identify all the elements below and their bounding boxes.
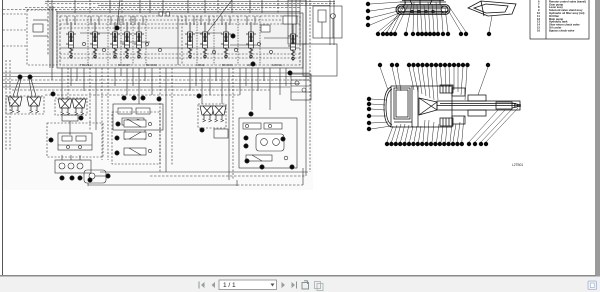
upper frame body xyxy=(391,86,452,127)
callout dot 10 xyxy=(281,137,285,141)
valve spool V3 xyxy=(110,22,120,59)
callout dot column (side view) xyxy=(366,2,370,6)
svg-text:ARM1: ARM1 xyxy=(196,63,205,67)
valve spool V9 xyxy=(246,22,256,59)
valve bank mid rails xyxy=(60,16,300,65)
last page button xyxy=(292,282,297,289)
inlet feed lines xyxy=(3,6,53,68)
callout dot 18 xyxy=(157,97,161,101)
leader diagonal into bank 2 xyxy=(117,0,120,26)
boom foot part drawing xyxy=(468,1,516,16)
wire bundle: top horizontal lines xyxy=(3,2,335,12)
inlet dashed box left of bank xyxy=(27,10,57,65)
valve spool V5 xyxy=(134,22,144,59)
excavator side view: track undercarriage xyxy=(396,0,450,15)
valve spool V7 xyxy=(200,22,210,59)
callout dot 9 xyxy=(245,159,249,163)
callout dot 20 xyxy=(132,96,136,100)
svg-text:SWING: SWING xyxy=(272,63,283,67)
pilot filter box top right xyxy=(313,6,342,38)
svg-text:Bypass check valve: Bypass check valve xyxy=(549,28,575,32)
side boxes xyxy=(452,88,465,96)
facing pages icon (disabled) xyxy=(315,282,324,291)
solenoid block under bank right xyxy=(288,0,306,44)
valve bank section separators xyxy=(88,16,260,65)
callout dot 30 xyxy=(70,176,74,180)
schematic tone wash xyxy=(3,0,313,190)
page bottom shadow line xyxy=(0,275,596,277)
next page button xyxy=(282,282,286,288)
callout dot 37 xyxy=(288,71,292,75)
callout dot 33 xyxy=(106,174,110,178)
shuttle valve block xyxy=(113,104,163,140)
svg-text:BUCKET: BUCKET xyxy=(118,63,130,67)
callout dot 23 xyxy=(49,138,53,142)
page number combo box xyxy=(219,280,277,290)
remote control valve (travel) xyxy=(198,104,228,138)
status icon bottom right xyxy=(588,281,597,290)
wire bundle: mid verticals xyxy=(62,0,310,180)
leader lines for side view callouts xyxy=(370,2,492,32)
remote control valve (left pair) xyxy=(6,79,44,114)
valve spool V10 xyxy=(288,24,298,61)
callout dot row (side view) xyxy=(376,32,491,36)
section labels along bank bottom xyxy=(80,63,283,67)
callout dot 26 xyxy=(18,75,22,79)
top view: left callout column xyxy=(371,99,391,129)
callout dot 11 xyxy=(244,144,248,148)
engine deck lines xyxy=(411,86,413,127)
boom assembly xyxy=(437,101,520,110)
callout dot 22 xyxy=(197,94,201,98)
callout dot 7 xyxy=(290,165,294,169)
wire bundle: top verticals xyxy=(48,0,334,80)
callout dot 24 xyxy=(79,116,83,120)
callout dot 31 xyxy=(60,176,64,180)
cab xyxy=(394,88,410,119)
viewer right gutter xyxy=(595,0,600,277)
swing priority block xyxy=(291,74,311,100)
top view: top callout row xyxy=(378,63,490,67)
excavator top view xyxy=(384,85,521,127)
counterweight arc xyxy=(384,87,391,127)
callout dot 19 xyxy=(141,96,145,100)
boom cylinder lower xyxy=(468,110,486,116)
annex relief valve box right of bank xyxy=(303,44,337,76)
leader diagonal into bank xyxy=(206,0,232,34)
hatched box top-right xyxy=(440,85,453,93)
svg-text:TRAVEL: TRAVEL xyxy=(80,63,92,67)
callout dot 12 xyxy=(244,136,248,140)
pilot pump unit xyxy=(84,170,106,183)
rotate/page icon xyxy=(302,281,309,289)
small pilot port squares on bank top xyxy=(159,12,297,32)
top view: bottom callout row xyxy=(385,142,488,146)
arm tip details xyxy=(496,102,512,109)
valve spool V2 xyxy=(90,22,100,59)
valve spool V1 xyxy=(66,22,76,59)
svg-text:BOOM1: BOOM1 xyxy=(222,63,233,67)
wire bundle: mid horizontals crossing page xyxy=(3,73,310,95)
page left edge line xyxy=(2,0,3,275)
previous page button xyxy=(212,282,216,288)
svg-text:1 / 1: 1 / 1 xyxy=(223,282,236,289)
callout dot 36 xyxy=(251,62,255,66)
valve manifold lower-left box xyxy=(47,123,103,157)
callout dot 28 xyxy=(88,178,92,182)
boom cylinder upper xyxy=(468,95,486,101)
callout dot 34 xyxy=(115,26,119,30)
wire bundle: bank drop verticals xyxy=(71,68,286,110)
hatched box bottom-right xyxy=(440,118,453,126)
leader lines top view, top row xyxy=(380,67,488,100)
solenoid valve stack xyxy=(112,112,160,164)
remote control valve (second pair) xyxy=(55,98,87,135)
wire bundle: lower horizontals xyxy=(88,168,308,186)
callout dot 21 xyxy=(122,96,126,100)
valve spool V4 xyxy=(122,22,132,59)
callout dot 17 xyxy=(116,122,120,126)
svg-text:L2TB01: L2TB01 xyxy=(512,163,523,167)
callout dot 35 xyxy=(231,34,235,38)
callout dot 8 xyxy=(260,165,264,169)
callout dot 32 xyxy=(200,128,204,132)
swing post xyxy=(419,98,437,115)
valve spool V8 xyxy=(221,22,231,59)
callout dot 13 xyxy=(249,112,253,116)
callout dot 29 xyxy=(78,176,82,180)
valve spool V6 xyxy=(185,22,195,59)
main control valve bank outline xyxy=(57,13,303,68)
top view: bottom callout row leaders xyxy=(387,108,518,142)
first page button xyxy=(199,282,205,289)
callout dot 27 xyxy=(28,75,32,79)
valve bank inner dashed frame xyxy=(60,16,300,65)
valve bank tone wash xyxy=(57,13,303,68)
viewer toolbar background xyxy=(0,277,600,292)
left dashed border verticals xyxy=(6,60,10,150)
callout dot 25 xyxy=(51,92,55,96)
svg-text:16: 16 xyxy=(537,28,540,32)
main pump assembly xyxy=(55,155,91,173)
swing motor block xyxy=(239,118,297,168)
callout dot 15 xyxy=(115,151,119,155)
callout dot 16 xyxy=(115,136,119,140)
check valve circles in bank xyxy=(82,42,272,53)
svg-text:BOOM2: BOOM2 xyxy=(146,63,157,67)
